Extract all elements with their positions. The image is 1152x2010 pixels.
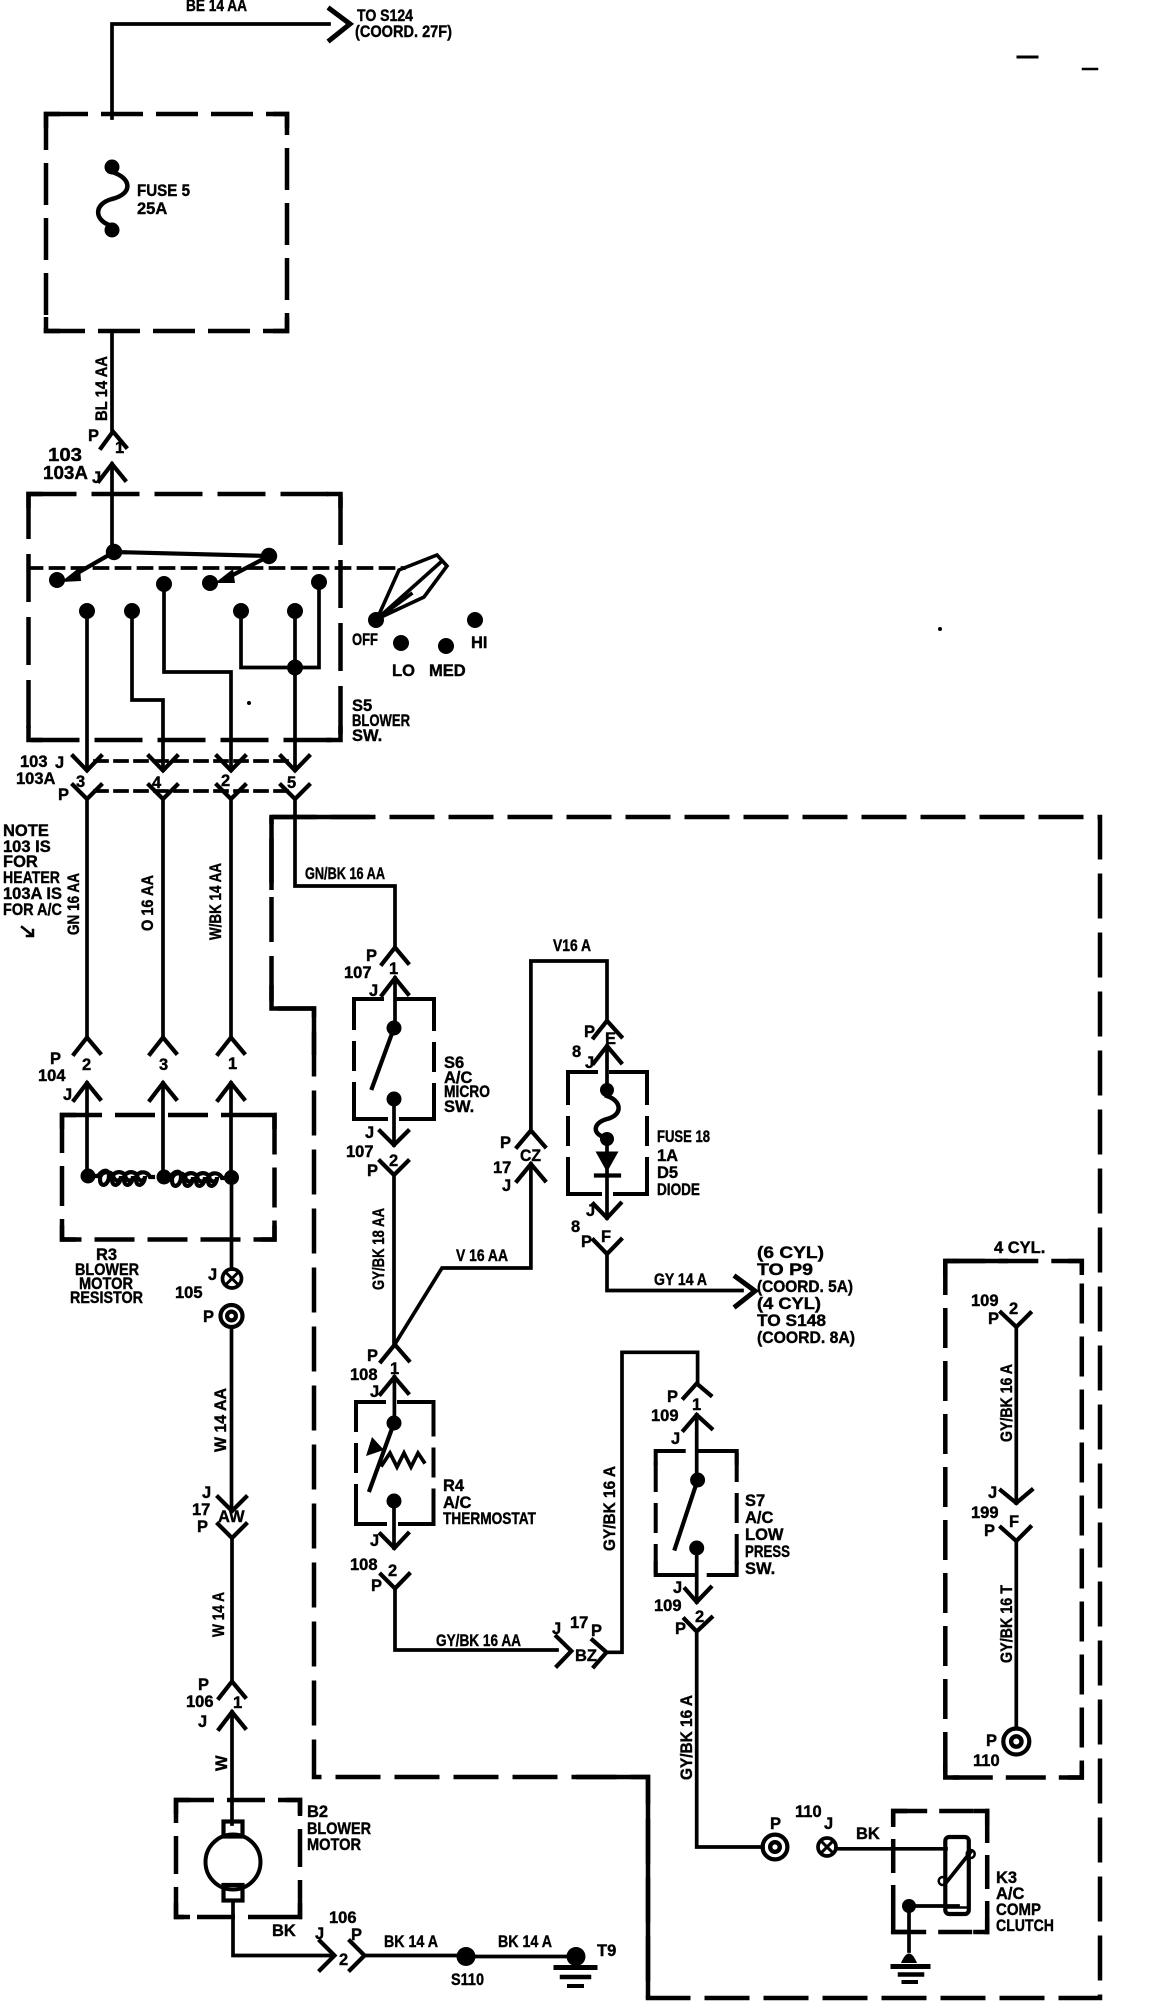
R4 thermostat contacts <box>387 1416 402 1509</box>
svg-text:J: J <box>55 754 64 772</box>
connector 109 pin 2 J half <box>685 1588 710 1603</box>
label GY/BK 18 AA (vertical) <box>370 1208 388 1290</box>
fuse F5 symbol <box>98 160 127 238</box>
wire S5 pin 2 <box>164 584 231 770</box>
svg-text:103: 103 <box>20 753 48 771</box>
K3 clutch element <box>939 1837 975 1914</box>
svg-text:J: J <box>202 1484 211 1502</box>
connector 104 pin 3 J half <box>150 1083 176 1100</box>
svg-text:1: 1 <box>233 1694 242 1712</box>
connector 110 P ring <box>763 1835 788 1860</box>
label K3 A/C COMP CLUTCH <box>996 1869 1054 1935</box>
label BK 14 A (2) <box>498 1933 552 1951</box>
svg-text:17: 17 <box>493 1159 511 1177</box>
print artifact marks <box>247 57 1097 705</box>
A/C comp clutch K3 dashed box <box>893 1811 987 1932</box>
svg-text:(COORD. 27F): (COORD. 27F) <box>355 23 452 41</box>
svg-text:1: 1 <box>228 1055 237 1073</box>
label GY 14 A <box>654 1271 707 1289</box>
connector 107 pin 1 J half <box>382 978 408 995</box>
connector 104 labels <box>38 1050 237 1104</box>
label GY/BK 16 AA <box>436 1632 521 1650</box>
svg-text:(6 CYL): (6 CYL) <box>757 1244 824 1262</box>
svg-text:O 16 AA: O 16 AA <box>139 875 157 931</box>
svg-text:BZ: BZ <box>575 1647 597 1665</box>
connector 108 pin 2 P half <box>381 1574 409 1589</box>
label B2 BLOWER MOTOR <box>307 1803 371 1854</box>
wire W/BK 14 AA pin2 to R3 <box>229 799 233 1037</box>
svg-text:R4: R4 <box>443 1477 465 1495</box>
R3 node pin 2 <box>81 1169 96 1184</box>
svg-text:FOR A/C: FOR A/C <box>3 901 62 919</box>
S6 switch contacts <box>387 1021 402 1107</box>
wire S5 pin 4 <box>132 611 163 770</box>
svg-text:1A: 1A <box>657 1147 678 1165</box>
svg-text:17: 17 <box>570 1614 588 1632</box>
wire GY 14 A <box>607 1254 742 1291</box>
svg-text:TO S148: TO S148 <box>757 1312 826 1330</box>
wire BK to K3 <box>836 1847 946 1851</box>
svg-text:F: F <box>1009 1513 1019 1531</box>
wire W to blower motor <box>230 1712 234 1824</box>
labels 103 103A J P and pin numbers <box>16 753 296 804</box>
svg-text:GY/BK 16 A: GY/BK 16 A <box>678 1695 696 1780</box>
svg-text:108: 108 <box>350 1556 378 1574</box>
connector 109 pin 2 P half <box>685 1618 712 1632</box>
svg-text:P: P <box>986 1732 997 1750</box>
svg-text:4 CYL.: 4 CYL. <box>994 1239 1045 1257</box>
svg-text:2: 2 <box>339 1951 348 1969</box>
S5 wiper arm 2 <box>215 556 269 583</box>
svg-text:GY/BK 16 AA: GY/BK 16 AA <box>436 1632 521 1650</box>
svg-text:V16 A: V16 A <box>553 937 591 955</box>
connector 104 pin 1 J half <box>218 1083 244 1100</box>
arrow TO S124 <box>330 9 350 40</box>
connector 8 E labels <box>572 1023 616 1072</box>
svg-text:(4 CYL): (4 CYL) <box>757 1295 821 1313</box>
wire GY/BK 18 AA <box>392 1175 396 1344</box>
svg-text:DIODE: DIODE <box>657 1181 700 1199</box>
S5 terminal c <box>156 576 172 592</box>
svg-text:GN/BK 16 AA: GN/BK 16 AA <box>305 865 385 883</box>
svg-text:MOTOR: MOTOR <box>307 1836 361 1854</box>
connector 104 pin 1 P half <box>218 1038 244 1055</box>
svg-text:104: 104 <box>38 1067 66 1085</box>
label BK <box>856 1825 880 1843</box>
wire BK from motor <box>233 1903 331 1956</box>
S5 terminal pin4 <box>124 603 140 619</box>
svg-text:107: 107 <box>344 964 372 982</box>
connector 106 pin 1 P half <box>219 1682 245 1699</box>
connector J chevron pin 3 <box>73 756 101 771</box>
connector 107 pin 1 P half <box>382 948 408 965</box>
K3 internal node <box>902 1899 958 1913</box>
connector 8 E P half <box>594 1021 622 1038</box>
connector 107 pin 2 P half <box>380 1161 408 1175</box>
connector 17 AW P half <box>218 1524 246 1538</box>
wire GN/BK 16 AA pin5 to S6 <box>295 799 395 947</box>
S5 terminal pin3 <box>79 603 95 619</box>
svg-text:1: 1 <box>389 960 398 978</box>
connector 8 E J half <box>594 1046 621 1063</box>
svg-text:GN 16 AA: GN 16 AA <box>65 873 83 935</box>
connector 103/103A labels <box>43 427 124 487</box>
svg-text:F: F <box>601 1228 611 1246</box>
svg-text:109: 109 <box>654 1597 682 1615</box>
svg-text:SW.: SW. <box>352 727 382 745</box>
wire GN 16 AA pin3 to R3 <box>85 799 89 1037</box>
label S5 BLOWER SW. <box>352 697 410 745</box>
label BE 14 AA <box>186 0 247 15</box>
wire GY/BK 16 A up to S7 <box>607 1352 698 1652</box>
fuse F18 symbol <box>596 1083 619 1146</box>
S5 wiper arm 1 <box>61 552 114 582</box>
label R3 BLOWER MOTOR RESISTOR <box>70 1246 143 1307</box>
label FUSE 5 25A <box>137 182 190 218</box>
svg-text:MED: MED <box>429 662 466 680</box>
svg-text:106: 106 <box>329 1909 357 1927</box>
svg-text:GY 14 A: GY 14 A <box>654 1271 707 1289</box>
wire BK 14 A to S110 <box>365 1954 463 1958</box>
wire R3 pin1 down <box>230 1178 234 1270</box>
label GN 16 AA (vertical) <box>65 873 83 935</box>
label (6 CYL) TO P9 ... <box>757 1244 855 1347</box>
S5 wiper pivot node <box>106 544 122 560</box>
label GY/BK 16 T (vertical) <box>998 1585 1016 1663</box>
svg-text:103A: 103A <box>43 462 88 483</box>
label S7 A/C LOW PRESS SW. <box>745 1492 790 1578</box>
wire into R4 <box>393 1377 397 1423</box>
svg-text:P: P <box>591 1622 602 1640</box>
connector CZ labels <box>493 1134 541 1195</box>
connector P fork pin 4 <box>149 785 177 799</box>
label BL 14 AA (vertical) <box>93 356 111 421</box>
svg-text:J: J <box>824 1815 833 1833</box>
svg-text:17: 17 <box>192 1501 210 1519</box>
connector 8 F J half <box>594 1204 621 1219</box>
node S5 pin 5 junction <box>287 660 303 676</box>
svg-text:W 14 AA: W 14 AA <box>212 1388 230 1452</box>
svg-text:P: P <box>367 1347 378 1365</box>
svg-text:108: 108 <box>350 1366 378 1384</box>
connector 109 pin 1 P half <box>684 1384 711 1399</box>
svg-text:T9: T9 <box>597 1942 616 1960</box>
svg-text:5: 5 <box>287 774 296 792</box>
svg-text:S7: S7 <box>745 1492 765 1510</box>
connector 106 pin 2 P half <box>350 1941 365 1970</box>
connector 108 pin 1 P half <box>381 1345 409 1362</box>
svg-text:GY/BK 16 A: GY/BK 16 A <box>998 1364 1016 1442</box>
wire R4 out <box>392 1501 396 1548</box>
svg-text:J: J <box>365 1124 374 1142</box>
S5 position dot OFF <box>368 612 384 628</box>
svg-text:PRESS: PRESS <box>745 1543 790 1561</box>
svg-text:8: 8 <box>571 1218 580 1236</box>
connector P fork pin 2 <box>217 785 245 799</box>
connector 110 engine P ring <box>1003 1729 1029 1755</box>
svg-text:(COORD. 5A): (COORD. 5A) <box>757 1278 853 1296</box>
label W (vertical) <box>213 1755 231 1771</box>
svg-text:J: J <box>315 1925 324 1943</box>
wire S5 pin 5 <box>293 611 297 770</box>
svg-text:LO: LO <box>392 662 415 680</box>
connector 109 pin 2 engine side P half <box>1001 1313 1030 1328</box>
svg-text:P: P <box>984 1522 995 1540</box>
connector 110 labels <box>770 1803 833 1833</box>
wire O 16 AA pin4 to R3 <box>161 799 165 1037</box>
connector J chevron pin 5 <box>281 756 309 771</box>
label W 14 AA (vertical) <box>212 1388 230 1452</box>
svg-text:SW.: SW. <box>444 1098 474 1116</box>
R3 node pin 1 <box>224 1170 239 1185</box>
label O 16 AA (vertical) <box>139 875 157 931</box>
connector 109 engine labels <box>971 1292 1018 1328</box>
label R4 A/C THERMOSTAT <box>443 1477 536 1528</box>
S5 selector knob pointer <box>377 555 447 619</box>
svg-text:P: P <box>667 1388 678 1406</box>
svg-text:1: 1 <box>115 439 124 457</box>
connector 8 F P half <box>594 1240 622 1255</box>
connector 103/103A pin 1 J half <box>99 464 125 481</box>
S7 switch arm <box>675 1480 698 1549</box>
svg-text:2: 2 <box>82 1056 91 1074</box>
svg-text:25A: 25A <box>137 200 167 218</box>
arrow to P9/S148 <box>736 1277 755 1306</box>
connector 108 pin 2 J half <box>381 1534 409 1549</box>
svg-text:TO P9: TO P9 <box>757 1261 813 1279</box>
connector 108 labels top <box>350 1347 399 1401</box>
connector 108 pin 1 J half <box>381 1377 409 1394</box>
wire W 14 A <box>230 1538 234 1681</box>
connector J chevron pin 4 <box>149 756 177 771</box>
svg-text:HI: HI <box>471 634 488 652</box>
wire 103A J to S5 wiper <box>110 464 114 552</box>
svg-text:P: P <box>367 1162 378 1180</box>
svg-text:CLUTCH: CLUTCH <box>996 1917 1054 1935</box>
connector CZ P half <box>517 1131 545 1148</box>
svg-text:109: 109 <box>651 1407 679 1425</box>
svg-text:P: P <box>581 1233 592 1251</box>
svg-text:BK 14 A: BK 14 A <box>384 1933 438 1951</box>
svg-text:FUSE 18: FUSE 18 <box>657 1128 710 1146</box>
S5 terminal f <box>287 603 303 619</box>
label S6 A/C MICRO SW. <box>444 1054 490 1116</box>
connector P fork pin 5 <box>281 785 309 799</box>
S5 terminal d <box>311 574 327 590</box>
label T9 <box>597 1942 616 1960</box>
connector 110 engine labels <box>973 1732 1000 1770</box>
S7 switch contacts <box>689 1473 705 1556</box>
S6 switch arm <box>372 1028 394 1088</box>
svg-text:J: J <box>586 1202 595 1220</box>
svg-text:AW: AW <box>218 1508 245 1526</box>
blower motor resistor R3 dashed box <box>62 1115 275 1240</box>
wire S5 pin 5 branch <box>241 582 319 668</box>
svg-text:3: 3 <box>76 773 85 791</box>
blower switch S5 dashed box <box>29 494 341 740</box>
connector CZ J half <box>517 1164 545 1181</box>
wire V 16 AA to R4 <box>395 1164 531 1344</box>
connector 105 labels <box>175 1266 217 1326</box>
svg-text:BK: BK <box>272 1922 296 1940</box>
label GN/BK 16 AA <box>305 865 385 883</box>
wire GY/BK 16 T <box>1014 1541 1018 1728</box>
wire V16 A net <box>531 961 607 1131</box>
label S110 <box>451 1971 484 1989</box>
connector P fork pin 3 <box>73 785 101 799</box>
S5 wiper bar <box>114 552 269 556</box>
svg-text:BK: BK <box>856 1825 880 1843</box>
svg-text:GY/BK 16 T: GY/BK 16 T <box>998 1585 1016 1663</box>
svg-text:2: 2 <box>388 1562 397 1580</box>
svg-text:P: P <box>198 1676 209 1694</box>
S5 selector dashed link line <box>29 566 405 570</box>
svg-text:W/BK 14 AA: W/BK 14 AA <box>207 863 225 940</box>
svg-text:GY/BK 18 AA: GY/BK 18 AA <box>370 1208 388 1290</box>
svg-text:J: J <box>63 1086 72 1104</box>
connector 106 pin 1 J half <box>219 1712 245 1729</box>
svg-text:P: P <box>371 1577 382 1595</box>
svg-text:P: P <box>675 1620 686 1638</box>
svg-text:J: J <box>988 1484 997 1502</box>
connector 109 pin 1 J half <box>684 1415 712 1430</box>
svg-text:J: J <box>673 1579 682 1597</box>
S5 terminal b <box>202 575 218 591</box>
connector 107 labels bottom <box>346 1124 398 1180</box>
motor B2 symbol <box>206 1822 261 1901</box>
label V16 A <box>553 937 591 955</box>
svg-text:107: 107 <box>346 1143 374 1161</box>
connector 17 AW labels <box>192 1484 245 1536</box>
svg-text:P: P <box>203 1308 214 1326</box>
fuse 18 dashed box <box>568 1072 647 1194</box>
svg-text:THERMOSTAT: THERMOSTAT <box>443 1510 536 1528</box>
ground T9 <box>556 1947 595 1986</box>
R4 heater zigzag <box>382 1453 424 1467</box>
svg-text:GY/BK 16 A: GY/BK 16 A <box>601 1466 619 1551</box>
svg-text:2: 2 <box>389 1152 398 1170</box>
blower motor B2 dashed box <box>176 1800 300 1917</box>
wire GY/BK 16 A engine <box>1014 1327 1018 1503</box>
svg-text:J: J <box>370 1532 379 1550</box>
svg-text:P: P <box>58 786 69 804</box>
svg-text:P: P <box>50 1050 61 1068</box>
connector 106 pin 2 J half <box>320 1941 335 1970</box>
svg-text:109: 109 <box>971 1292 999 1310</box>
label GY/BK 16 A (vertical) <box>601 1466 619 1551</box>
svg-text:P: P <box>584 1023 595 1041</box>
label W/BK 14 AA (vertical) <box>207 863 225 940</box>
connector 104 pin 2 J half <box>74 1083 100 1100</box>
svg-text:W: W <box>213 1755 231 1771</box>
S5 contact OFF-row terminal a <box>49 572 65 588</box>
connector 109 labels top <box>651 1388 701 1448</box>
connector 107 pin 2 J half <box>380 1131 408 1145</box>
wire GY/BK 16 AA to BZ <box>395 1589 557 1651</box>
wire into S6 <box>393 978 397 1028</box>
svg-text:J: J <box>552 1620 561 1638</box>
svg-text:OFF: OFF <box>352 631 378 649</box>
svg-text:D5: D5 <box>657 1164 678 1182</box>
connector 104 pin 2 P half <box>74 1038 100 1055</box>
svg-text:110: 110 <box>795 1803 822 1821</box>
svg-text:J: J <box>502 1177 511 1195</box>
svg-text:P: P <box>988 1310 999 1328</box>
connector 17 AW J half <box>218 1497 246 1511</box>
wire into S7 <box>695 1415 699 1480</box>
A/C low press switch S7 dashed box <box>656 1451 737 1575</box>
4 CYL box top edge solid run <box>945 1259 1008 1264</box>
connector 17 BZ P half <box>593 1640 607 1667</box>
S5 terminal e <box>233 603 249 619</box>
wire K3 to ground <box>907 1906 911 1951</box>
wire S5 pin 3 <box>85 611 89 770</box>
S5 position dot MED <box>438 638 454 654</box>
label TO S124 (COORD. 27F) <box>355 7 452 41</box>
fuse box (FUSE 5) dashed outline <box>46 114 287 331</box>
label BK 14 A <box>384 1933 438 1951</box>
connector 104 pin 3 P half <box>150 1038 176 1055</box>
svg-text:BK 14 A: BK 14 A <box>498 1933 552 1951</box>
connector 110 J bulkhead <box>818 1838 836 1856</box>
svg-text:A/C: A/C <box>745 1509 774 1527</box>
connector 8 F labels <box>571 1202 611 1251</box>
R3 resistor element <box>88 1171 226 1186</box>
svg-text:2: 2 <box>221 772 230 790</box>
connector 103/103A P row dashed link <box>95 789 290 793</box>
ground under K3 <box>893 1954 928 1983</box>
wire BL 14 AA <box>110 331 114 431</box>
S5 position dot LO <box>393 635 409 651</box>
svg-text:BL 14 AA: BL 14 AA <box>93 356 111 421</box>
svg-text:3: 3 <box>159 1056 168 1074</box>
label V 16 AA <box>456 1247 508 1265</box>
svg-text:S110: S110 <box>451 1971 484 1989</box>
svg-text:FUSE 5: FUSE 5 <box>137 182 190 200</box>
svg-text:J: J <box>198 1713 207 1731</box>
svg-text:2: 2 <box>1009 1300 1018 1318</box>
A/C micro switch S6 dashed box <box>354 999 434 1119</box>
splice S110 <box>457 1947 476 1966</box>
connector 107 labels top <box>344 947 398 1000</box>
S5 position dot HI <box>467 612 483 628</box>
labels OFF LO MED HI <box>352 631 488 680</box>
connector 109 labels bottom <box>654 1579 704 1638</box>
wire BK 14 A to T9 <box>470 1955 572 1959</box>
svg-text:P: P <box>366 947 377 965</box>
R4 switch arm with arrow <box>366 1423 394 1490</box>
svg-text:P: P <box>88 427 99 445</box>
label GY/BK 16 A 2 (vertical) <box>678 1695 696 1780</box>
A/C thermostat R4 dashed box <box>356 1402 434 1524</box>
wire S6 out <box>392 1099 396 1145</box>
svg-text:P: P <box>197 1518 208 1536</box>
R3 node pin 3 <box>157 1170 172 1185</box>
svg-text:P: P <box>770 1815 781 1833</box>
svg-text:RESISTOR: RESISTOR <box>70 1289 143 1307</box>
wire W 14 AA <box>230 1327 234 1511</box>
wire into fuse 18 <box>605 1046 609 1090</box>
connector 103/103A J row dashed link <box>95 759 290 763</box>
connector 199 F labels <box>971 1484 1019 1540</box>
wire BE 14 AA feed <box>112 24 329 118</box>
label FUSE 18 1A D5 DIODE <box>657 1128 710 1199</box>
note text block <box>3 822 62 936</box>
connector 103/103A pin 1 P half <box>101 432 126 449</box>
svg-text:199: 199 <box>971 1504 999 1522</box>
connector 17 BZ J half <box>557 1637 572 1667</box>
svg-text:B2: B2 <box>307 1803 328 1821</box>
